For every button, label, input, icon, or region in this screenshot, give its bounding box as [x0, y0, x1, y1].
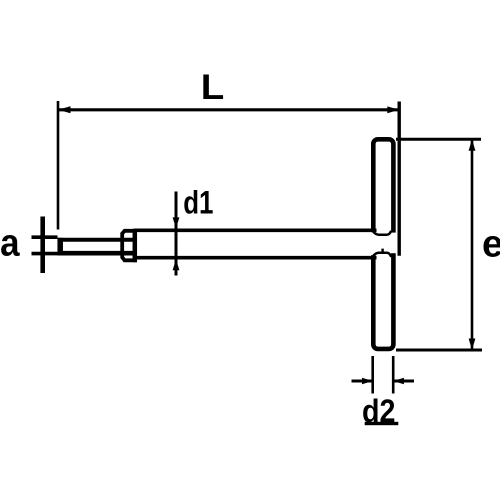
dimension e: line [471, 139, 474, 350]
svg-text:L: L [201, 68, 225, 107]
svg-text:d1: d1 [183, 186, 213, 221]
dimension a: bottom tick [32, 252, 58, 256]
junction top curve [373, 231, 392, 235]
dimension d2: right arrow [393, 378, 404, 385]
dimension d1: bottom arrow [173, 259, 180, 270]
shaft top edge [134, 229, 377, 233]
dimension a: top tick [32, 235, 58, 239]
label d2 underline [365, 422, 399, 425]
dimension L: line [58, 108, 399, 111]
svg-text:a: a [0, 221, 20, 264]
svg-text:e: e [482, 223, 500, 265]
shaft left end cap [133, 229, 138, 262]
dimension e: bottom extension line [396, 349, 482, 352]
dimension a: vertical line [40, 217, 45, 274]
dimension L: right arrow [387, 106, 399, 113]
shaft protruding end / L right extension line [398, 102, 401, 256]
junction white gaps over handle edges [368, 232, 378, 255]
dimension d1: top arrow [173, 217, 180, 228]
dimension e: top arrow [469, 139, 476, 151]
hex tip rod [58, 238, 135, 256]
dimension e: top extension line [396, 138, 481, 141]
dimension d2: left extension line [371, 356, 374, 394]
dimension d2: left arrow [362, 378, 373, 385]
dimension e: bottom arrow [469, 339, 476, 351]
junction nub [381, 249, 383, 254]
dimension d2: right line [393, 380, 414, 383]
dimension L: left arrow [58, 106, 71, 113]
junction bottom curve [373, 253, 392, 257]
collar (hex ferrule) [122, 231, 135, 260]
shaft bottom edge [134, 256, 377, 260]
dimension d2: right extension line [392, 356, 395, 394]
dimension d2: left line [352, 380, 373, 383]
dimension L: left extension line [57, 101, 60, 230]
handle (vertical bar) [373, 139, 393, 349]
dimension d1: line [175, 192, 178, 276]
